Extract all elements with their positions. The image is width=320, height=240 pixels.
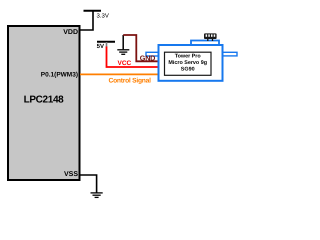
svg-text:3.3V: 3.3V bbox=[97, 13, 109, 20]
power symbol 3.3V bar bbox=[84, 10, 102, 12]
ground symbol GND2 bars bbox=[91, 193, 103, 198]
svg-text:VCC: VCC bbox=[118, 60, 132, 67]
svg-text:LPC2148: LPC2148 bbox=[24, 94, 65, 105]
wire VCC (red) 5V to servo bbox=[107, 47, 159, 68]
power symbol 5V stem bbox=[106, 42, 108, 48]
svg-text:VSS: VSS bbox=[64, 171, 78, 178]
ground symbol GND1 bars bbox=[117, 50, 129, 55]
servo M1 connector (4-pin header) bbox=[204, 33, 217, 39]
wire VDD to 3.3V rail bbox=[80, 11, 94, 30]
servo M1 body bbox=[159, 45, 223, 81]
IC U1 LPC2148 body bbox=[8, 26, 80, 180]
svg-text:5V: 5V bbox=[97, 43, 104, 50]
ground symbol GND1 stem bbox=[122, 35, 124, 49]
servo M1 inner label box bbox=[165, 52, 212, 75]
svg-text:SG90: SG90 bbox=[181, 66, 195, 72]
svg-text:GND: GND bbox=[140, 53, 155, 62]
svg-text:VDD: VDD bbox=[63, 29, 78, 36]
servo M1 top hub bbox=[191, 41, 219, 49]
servo M1 left mounting tab bbox=[146, 52, 159, 56]
svg-text:P0.1(PWM3): P0.1(PWM3) bbox=[41, 71, 78, 78]
svg-text:Control Signal: Control Signal bbox=[109, 77, 152, 84]
svg-text:Micro Servo 9g: Micro Servo 9g bbox=[168, 60, 207, 66]
wire Control Signal (orange) P0.1 to servo bbox=[80, 73, 159, 75]
power symbol 5V bar bbox=[97, 41, 115, 43]
wire VSS to ground bbox=[80, 175, 97, 193]
servo M1 right mounting tab bbox=[223, 52, 238, 56]
wire GND (dark red) ground to servo bbox=[123, 35, 158, 61]
servo M1 connector legs bbox=[207, 39, 209, 41]
svg-text:Tower Pro: Tower Pro bbox=[175, 54, 202, 60]
